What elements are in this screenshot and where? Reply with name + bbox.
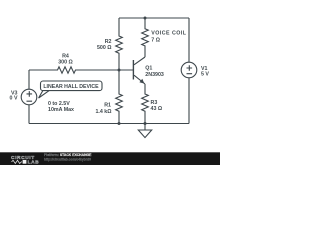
svg-text:0 V: 0 V — [10, 96, 18, 102]
svg-text:R1: R1 — [104, 103, 111, 109]
svg-text:2N3903: 2N3903 — [145, 72, 164, 78]
svg-text:http://circuitlab.com/c4kybrd9: http://circuitlab.com/c4kybrd9 — [44, 158, 91, 162]
svg-text:500 Ω: 500 Ω — [97, 45, 112, 51]
svg-text:300 Ω: 300 Ω — [58, 60, 73, 66]
svg-text:LAB: LAB — [28, 160, 40, 166]
svg-text:1.4 kΩ: 1.4 kΩ — [95, 109, 112, 115]
svg-text:VOICE COIL: VOICE COIL — [151, 31, 186, 37]
svg-text:7 Ω: 7 Ω — [151, 38, 160, 44]
svg-text:LINEAR HALL DEVICE: LINEAR HALL DEVICE — [43, 84, 99, 90]
svg-text:5 V: 5 V — [201, 72, 209, 78]
svg-text:Q1: Q1 — [145, 66, 152, 72]
svg-text:Platform: STACK EXCHANGE: Platform: STACK EXCHANGE — [44, 153, 92, 157]
svg-text:R3: R3 — [151, 100, 158, 106]
svg-text:10mA Max: 10mA Max — [48, 107, 74, 113]
svg-text:43 Ω: 43 Ω — [151, 106, 163, 112]
